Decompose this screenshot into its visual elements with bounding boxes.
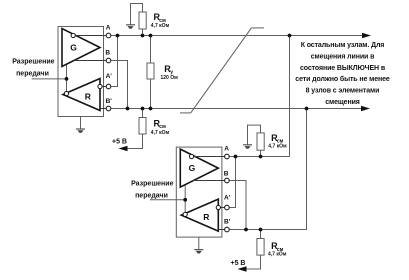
svg-text:4,7 кОм: 4,7 кОм: [268, 251, 287, 257]
svg-text:передачи: передачи: [135, 192, 168, 199]
svg-text:B': B': [224, 219, 231, 226]
svg-text:R: R: [203, 212, 209, 222]
svg-text:сети должно быть не менее: сети должно быть не менее: [295, 75, 390, 83]
svg-text:8 узлов с элементами: 8 узлов с элементами: [306, 88, 380, 95]
svg-text:A': A': [224, 194, 231, 201]
svg-text:A: A: [106, 25, 111, 32]
svg-text:передачи: передачи: [16, 71, 49, 78]
svg-text:A': A': [106, 73, 113, 80]
svg-text:+5 В: +5 В: [112, 139, 127, 146]
svg-text:4,7 кОм: 4,7 кОм: [151, 23, 170, 29]
svg-text:120 Ом: 120 Ом: [161, 75, 179, 81]
svg-text:G: G: [70, 42, 77, 52]
svg-text:R: R: [85, 91, 91, 101]
svg-text:4,7 кОм: 4,7 кОм: [151, 130, 170, 136]
svg-text:B: B: [224, 170, 229, 177]
svg-text:смещения линии в: смещения линии в: [311, 53, 375, 60]
svg-text:+5 В: +5 В: [231, 260, 246, 267]
svg-text:смещения: смещения: [325, 99, 360, 106]
svg-text:B': B': [106, 98, 113, 105]
svg-text:G: G: [189, 163, 196, 173]
svg-text:A: A: [224, 146, 229, 153]
svg-text:состояние ВЫКЛЮЧЕН в: состояние ВЫКЛЮЧЕН в: [300, 65, 386, 72]
svg-text:4,7 кОм: 4,7 кОм: [268, 144, 287, 150]
svg-text:B: B: [105, 50, 110, 57]
svg-text:Разрешение: Разрешение: [12, 59, 54, 66]
svg-text:Разрешение: Разрешение: [131, 180, 173, 187]
svg-text:К остальным узлам. Для: К остальным узлам. Для: [301, 42, 385, 49]
